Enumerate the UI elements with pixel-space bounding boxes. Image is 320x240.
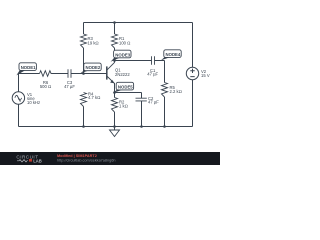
node label NODE1 [16,63,36,76]
svg-text:Modified | SIM1PART2: Modified | SIM1PART2 [57,154,97,158]
wire base row left [19,73,40,75]
wire R2 bottom lead [114,112,116,127]
svg-text:1 kΩ: 1 kΩ [119,104,128,109]
resistor R4 [81,93,87,107]
resistor R6 [40,71,52,77]
junction dot R1 top [113,21,116,24]
junction dot R5 bottom [163,125,166,128]
wire R1 bottom lead / collector vertical [114,48,116,63]
source V1 arrowhead [19,100,21,102]
source V2 [186,67,198,79]
svg-text:4.7 kΩ: 4.7 kΩ [88,95,100,100]
wire V2 right vertical bottom [192,80,194,127]
svg-text:19 kΩ: 19 kΩ [88,41,99,46]
node label NODE3 [111,50,131,62]
wire bottom rail [19,126,193,128]
wire R3 top lead [83,23,85,35]
wire top rail [84,22,193,24]
footer bar [0,152,220,165]
wire R1 top lead [114,23,116,35]
junction dot node5 [113,91,116,94]
wire V1 bottom vertical [18,104,20,126]
wire R5 bottom lead [164,97,166,127]
wire ground stub [114,127,116,131]
svg-text:2N2222: 2N2222 [115,72,130,77]
resistor R1 [112,34,118,48]
svg-text:NODE2: NODE2 [86,65,101,70]
wire R6 to C3 [52,73,69,75]
capacitor C1 [152,56,155,65]
resistor R3 [81,34,87,48]
wire output row collector to C1 [115,60,152,62]
svg-text:500 Ω: 500 Ω [40,84,51,89]
resistor R5 [162,83,168,98]
svg-text:10 kHz: 10 kHz [27,100,40,105]
wire node5 branch to C2 [115,92,142,94]
svg-text:NODE3: NODE3 [115,52,130,57]
svg-text:NODE5: NODE5 [118,84,133,89]
svg-text:http://circuitlab.com/cekka7a8: http://circuitlab.com/cekka7a8ng6h [57,159,115,163]
footer logo red mark [29,159,32,162]
wire V2 right vertical top [192,23,194,68]
junction dot node2 [82,72,85,75]
svg-text:2.2 kΩ: 2.2 kΩ [170,89,182,94]
source V1 [12,92,24,104]
transistor Q1 collector diagonal [107,62,115,70]
svg-text:15 V: 15 V [201,73,210,78]
svg-text:47 µF: 47 µF [147,72,158,77]
transistor Q1 emitter diagonal [107,76,115,83]
svg-text:100 Ω: 100 Ω [119,41,130,46]
wire C2 bottom lead [141,101,143,127]
capacitor C3 [68,69,71,78]
junction dot R4 bottom [82,125,85,128]
footer logo zigzag [17,160,28,162]
wire C3 to node2 junction [71,73,107,75]
node label NODE2 [80,63,101,73]
ground [110,130,120,137]
wire C1 to node4 corner [155,60,165,62]
junction dot C2 bottom [140,125,143,128]
svg-text:NODE1: NODE1 [21,65,36,70]
svg-text:NODE4: NODE4 [166,52,181,57]
svg-text:LAB: LAB [33,158,42,163]
wire emitter vertical to node5 [114,83,116,98]
transistor Q1 emitter arrow [110,80,114,84]
junction dot ground [113,125,116,128]
node label NODE4 [161,50,181,61]
wire V1 top vertical [18,74,20,92]
resistor R2 [112,98,118,113]
svg-text:47 µF: 47 µF [148,99,159,104]
svg-text:47 µF: 47 µF [64,84,75,89]
node label NODE5 [113,82,134,93]
wire R3 bottom lead [83,48,85,74]
transistor Q1 bar [106,66,108,79]
wire C2 top lead [141,93,143,99]
wire node4 corner down to R5 [164,61,166,83]
capacitor C2 [136,98,147,101]
junction dot collector output [113,59,116,62]
wire R4 bottom lead to rail [83,107,85,127]
